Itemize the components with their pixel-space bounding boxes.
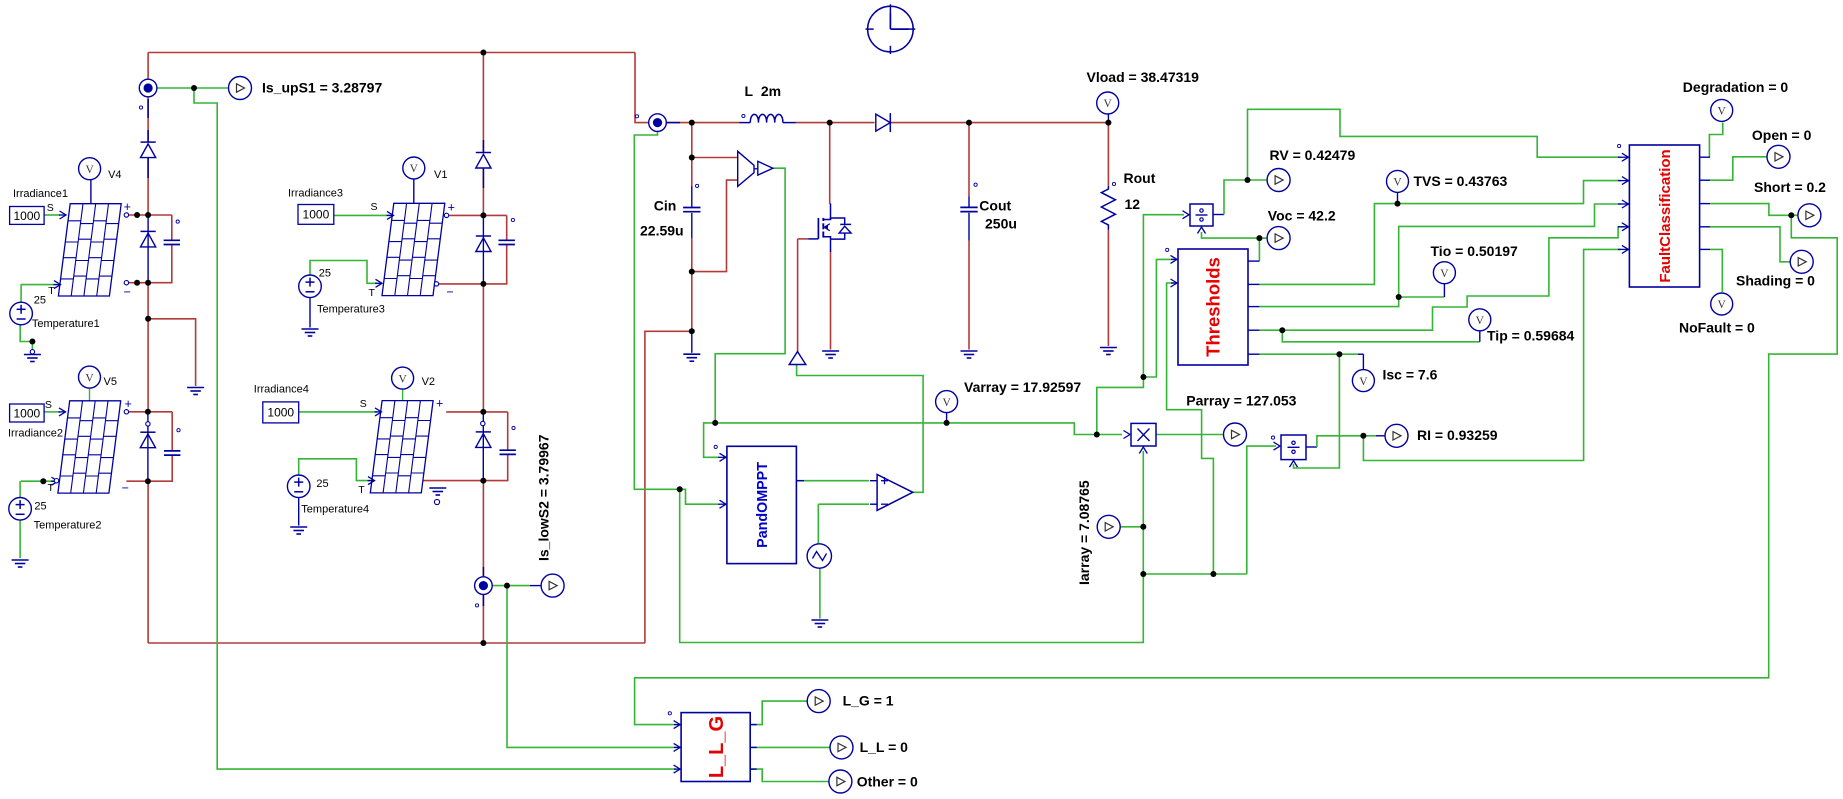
wire carrier source ground stem <box>819 568 821 618</box>
svg-text:S: S <box>360 398 367 410</box>
wire bypass2 cap branch <box>171 412 173 452</box>
svg-text:Tio = 0.50197: Tio = 0.50197 <box>1431 243 1519 259</box>
node multiplier input <box>1094 432 1100 438</box>
node RV junction <box>1245 177 1251 183</box>
svg-text:Is_upS1 = 3.28797: Is_upS1 = 3.28797 <box>262 80 382 96</box>
marker bypass3 <box>511 218 514 221</box>
terminal panel2 T <box>54 479 58 483</box>
constant block Irradiance1 <box>10 207 45 225</box>
svg-text:Rout: Rout <box>1124 170 1156 186</box>
wire string2 to panel4 <box>482 284 484 412</box>
wire Voc line <box>1259 238 1266 261</box>
ground MOSFET source <box>822 351 839 358</box>
svg-text:V: V <box>1476 315 1485 327</box>
wire Thresholds out3 stub <box>1248 306 1259 308</box>
label L_G value <box>843 693 894 709</box>
voltmeter V4 <box>79 158 101 204</box>
marker bypass2 <box>177 429 180 432</box>
input arrow T1 <box>54 281 61 289</box>
ground Temperature4 <box>290 527 307 534</box>
wire voltmeter tap lower <box>692 180 738 272</box>
transistor Q1 (MOSFET with body diode) <box>808 203 851 252</box>
marker input node <box>635 115 638 118</box>
label Other value <box>857 774 918 790</box>
wire V2 stem <box>402 389 404 400</box>
wire Cin return to bottom rail <box>645 331 692 643</box>
wire voltmeter tap upper <box>692 157 738 159</box>
wire Thresholds out5 stub <box>1248 353 1259 355</box>
svg-text:Is_lowS2 = 3.79967: Is_lowS2 = 3.79967 <box>536 434 552 561</box>
wire Tio line <box>1259 204 1621 307</box>
block PandOMPPT (MPPT controller) <box>727 446 797 563</box>
wire RV divider output stub <box>1213 214 1224 216</box>
diode D4 string2 top <box>476 153 491 169</box>
mark minus panel2 <box>122 481 129 495</box>
svg-text:S: S <box>47 202 54 214</box>
voltage source Temperature2 <box>9 498 32 521</box>
multiplier block (Parray = Varray*Iarray) <box>1124 423 1157 453</box>
svg-text:V2: V2 <box>422 376 435 388</box>
mark plus panel3 <box>448 201 455 215</box>
ground Temperature3 <box>302 329 319 336</box>
label Isc value <box>1383 367 1438 383</box>
terminal panel2 plus <box>124 410 128 414</box>
wire Tio probe branch <box>1399 296 1445 298</box>
node Short junction <box>1788 212 1794 218</box>
wire Tio probe stem <box>1443 284 1445 297</box>
label S panel3 <box>371 201 378 213</box>
svg-text:FaultClassification: FaultClassification <box>1657 149 1674 282</box>
label V5 <box>104 376 117 388</box>
diode D5 bypass panel3 <box>476 236 491 252</box>
label 25 Temperature1 <box>34 295 46 307</box>
node Cin sense bottom <box>689 269 695 275</box>
wire string1 bottom drop <box>147 481 149 643</box>
svg-text:S: S <box>371 201 378 213</box>
label Temperature1 <box>32 318 100 330</box>
svg-text:+: + <box>448 201 455 215</box>
probe display Short <box>1798 204 1821 227</box>
PV panel Irradiance1 (V4 string module) <box>58 204 121 296</box>
block Thresholds <box>1178 249 1248 365</box>
wire blue lead probe2 above <box>482 567 484 576</box>
svg-text:V: V <box>398 373 407 385</box>
label T panel2 <box>48 482 55 494</box>
wire Short feedback to L_L_G input1 <box>635 215 1838 724</box>
label Tio value <box>1431 243 1519 259</box>
wire panel1 plus row <box>126 214 171 216</box>
svg-text:Thresholds: Thresholds <box>1203 257 1224 357</box>
constant block Irradiance4 <box>263 402 299 423</box>
block FaultClassification <box>1629 145 1699 287</box>
svg-text:V5: V5 <box>104 376 117 388</box>
wire Tip line <box>1259 227 1624 330</box>
wire Varray to Thresholds input1 <box>1143 259 1174 377</box>
wire RV to FaultClassification input1 <box>1248 109 1622 180</box>
wire Varray stair to RV divider <box>1097 215 1184 435</box>
voltage source Temperature1 <box>10 302 33 325</box>
wire FC out2 to Open <box>1710 157 1767 180</box>
svg-text:Short = 0.2: Short = 0.2 <box>1754 179 1826 195</box>
node string1 mid ground <box>145 316 151 322</box>
current probe Iarray input node <box>649 114 667 132</box>
node TVS junction <box>1395 201 1401 207</box>
svg-text:Irradiance2: Irradiance2 <box>8 428 63 440</box>
label T panel3 <box>369 287 376 299</box>
svg-text:+: + <box>124 200 131 214</box>
label NoFault value <box>1679 320 1755 336</box>
wire FC out4 to Shading <box>1710 227 1790 262</box>
op-amp PWM comparator U1 <box>870 475 913 511</box>
constant block Irradiance2 <box>10 404 45 422</box>
node panel1 minus a <box>134 280 140 286</box>
node Tip tap <box>1279 327 1285 333</box>
label V1 <box>434 169 447 181</box>
svg-text:Temperature2: Temperature2 <box>34 520 102 532</box>
wire Is_upS1 probe tap <box>157 87 229 89</box>
probe display Is_upS1 <box>229 77 252 100</box>
svg-text:25: 25 <box>34 295 46 307</box>
ground carrier source <box>811 620 828 627</box>
label L_L value <box>860 739 909 755</box>
svg-text:22.59u: 22.59u <box>640 223 684 239</box>
wire bypass1 cap bottom <box>126 245 171 283</box>
wire blue lead probe2 below <box>482 595 484 606</box>
svg-text:Temperature3: Temperature3 <box>317 304 385 316</box>
wire Cout top lead <box>968 123 970 197</box>
diode D6 bypass panel4 <box>476 432 491 448</box>
svg-text:Iarray = 7.08765: Iarray = 7.08765 <box>1076 480 1092 585</box>
wire Cin top lead <box>691 123 693 186</box>
input arrow S3 <box>387 211 394 219</box>
svg-text:S: S <box>45 399 52 411</box>
clock block <box>866 4 916 54</box>
node panel1 plus b <box>145 212 151 218</box>
label Temperature3 <box>317 304 385 316</box>
label Vload value <box>1087 69 1200 85</box>
wire probe to Cin top junction <box>667 122 692 124</box>
label 25 Temperature3 <box>319 268 331 280</box>
wire PandOMPPT input2 jog <box>680 489 718 504</box>
marker FaultClassification <box>1618 144 1621 147</box>
svg-text:1000: 1000 <box>303 208 330 222</box>
wire Temperature1 stem top <box>20 285 22 303</box>
wire blue lead D1 below <box>147 158 149 178</box>
label Irradiance4 <box>254 384 309 396</box>
wire Vload junction to Rout <box>1107 123 1109 186</box>
svg-text:V: V <box>942 397 951 409</box>
svg-text:T: T <box>48 482 55 494</box>
label Irradiance2 <box>8 428 63 440</box>
probe display RV <box>1267 169 1291 192</box>
node panel2 plus <box>145 409 151 415</box>
capacitor Cout <box>960 207 977 211</box>
wire Rout to ground <box>1107 230 1109 346</box>
voltage source Temperature4 <box>287 475 310 498</box>
constant block Irradiance3 <box>298 205 334 225</box>
wire string1 probe to diode D1 <box>147 97 149 142</box>
svg-text:T: T <box>369 287 376 299</box>
wire blue lead D4 above <box>482 140 484 153</box>
wire Iarray branch row <box>1143 573 1247 575</box>
svg-text:1000: 1000 <box>13 209 40 223</box>
node Thresholds in2 stair <box>1210 571 1216 577</box>
PV panel Irradiance2 (V5 string module) <box>58 401 121 493</box>
svg-text:V: V <box>1104 98 1113 110</box>
wire string1 top drop <box>147 53 149 80</box>
wire Iarray stair to Thresholds input2 <box>1167 283 1214 574</box>
wire Cout cap lead bottom <box>968 213 970 241</box>
probe display Iarray <box>1097 515 1120 538</box>
marker Cout <box>974 183 977 186</box>
wire RI to FaultClassification input5 <box>1363 249 1621 460</box>
svg-text:25: 25 <box>34 501 46 513</box>
label Rout <box>1124 170 1156 186</box>
marker inductor <box>742 114 745 117</box>
svg-text:Irradiance4: Irradiance4 <box>254 384 309 396</box>
wire Voc to divider bottom <box>1202 232 1260 238</box>
wire bypass4 cap bottom <box>423 455 507 481</box>
current probe Is_upS1 <box>139 79 157 97</box>
wire PandOMPPT output to comparator <box>796 480 869 482</box>
svg-text:V: V <box>1718 299 1727 311</box>
input arrows Thresholds <box>1171 255 1179 287</box>
ground terminal circle panel4 <box>434 499 439 504</box>
node Iarray probe tap <box>1140 524 1146 530</box>
node string2 top tap <box>480 50 486 56</box>
wire L_L_G out2 to L_L <box>750 746 830 748</box>
wire TVS line <box>1259 181 1621 285</box>
svg-text:V: V <box>85 372 94 384</box>
input arrow T2 <box>51 477 58 485</box>
svg-text:V: V <box>85 164 94 176</box>
svg-text:Vload = 38.47319: Vload = 38.47319 <box>1087 69 1200 85</box>
label Cout value <box>985 216 1017 232</box>
ground panel4 negative <box>429 488 446 495</box>
node Varray probe tap <box>944 420 950 426</box>
wire gate drive <box>798 238 809 240</box>
svg-text:−: − <box>446 285 453 299</box>
label V4 <box>108 169 121 181</box>
wire TVS probe stem <box>1397 193 1399 204</box>
label Rout value <box>1125 196 1141 212</box>
wire string1 D1 to node P1+ <box>147 158 149 215</box>
node Cin top <box>689 120 695 126</box>
node panel2 minus <box>145 478 151 484</box>
diode D2 bypass panel1 <box>141 231 156 247</box>
svg-text:Varray = 17.92597: Varray = 17.92597 <box>964 379 1081 395</box>
wire Vload probe stem <box>1107 114 1109 123</box>
wire Temperature3 T wire <box>310 261 378 284</box>
input arrows PandOMPPT <box>718 453 804 508</box>
svg-text:Shading = 0: Shading = 0 <box>1736 273 1815 289</box>
mark plus panel1 <box>124 200 131 214</box>
svg-text:L 2m: L 2m <box>745 83 782 99</box>
node Cout rail <box>966 120 972 126</box>
wire panel4 plus row <box>446 411 508 413</box>
node Cin sense top <box>689 155 695 161</box>
label Cout <box>979 198 1011 214</box>
terminal panel1 minus <box>124 281 128 285</box>
label Short value <box>1754 179 1826 195</box>
wire MOSFET junction to diode D5 <box>830 122 875 124</box>
mark plus panel4 <box>436 397 443 411</box>
wire bypass3 cap bottom <box>436 245 507 284</box>
wire Temperature2 stem top <box>19 481 21 497</box>
label Tip value <box>1487 328 1575 344</box>
probe display Open <box>1767 145 1790 168</box>
capacitor bypass panel2 <box>164 451 180 455</box>
marker bypass1 <box>176 220 179 223</box>
wire Cin bottom lead <box>691 238 693 331</box>
wire Iarray long run <box>680 451 1144 643</box>
svg-text:Temperature4: Temperature4 <box>301 504 369 516</box>
label Is_lowS2 value (rotated) <box>536 434 552 561</box>
wire Irradiance4 S input <box>299 411 377 413</box>
svg-text:+: + <box>436 397 443 411</box>
node panel4 plus <box>480 409 486 415</box>
svg-text:V: V <box>1359 376 1368 388</box>
marker Is_upS1 <box>139 106 142 109</box>
probe display RI <box>1376 424 1408 447</box>
wire Is_lowS2 to L_L_G input2 <box>507 586 676 748</box>
node RV riser <box>1140 374 1146 380</box>
PV panel Irradiance3 (V1 string module) <box>382 203 445 295</box>
wire string2 D3 to panel3 plus <box>482 169 484 216</box>
wire Varray buffer output <box>715 168 785 423</box>
ground mid-string <box>187 388 204 395</box>
ground Cin <box>683 354 700 361</box>
label TVS value <box>1414 173 1508 189</box>
resistor Rout <box>1101 186 1115 230</box>
node Tio junction <box>1396 294 1402 300</box>
wire Cin top junction to inductor <box>692 122 739 124</box>
diode D3 bypass panel2 <box>140 432 155 448</box>
wire Isc probe stem <box>1362 354 1364 369</box>
mark minus panel1 <box>124 285 131 299</box>
svg-text:L_G = 1: L_G = 1 <box>843 693 894 709</box>
probe display Parray <box>1223 423 1247 446</box>
voltmeter block (Varray sense) <box>738 151 773 186</box>
wire RI divider output stub <box>1306 446 1317 448</box>
wire Iarray probe drop <box>634 132 679 490</box>
wire bypass4 cap branch <box>507 412 509 451</box>
marker Rout <box>1112 182 1115 185</box>
svg-text:25: 25 <box>316 478 328 490</box>
node Temperature1 ground <box>29 339 35 345</box>
node Is_upS1 tap <box>191 85 197 91</box>
inductor L <box>739 114 796 122</box>
svg-text:RI = 0.93259: RI = 0.93259 <box>1417 427 1498 443</box>
svg-text:1000: 1000 <box>267 406 294 420</box>
wire Cin ground stem <box>691 331 693 353</box>
terminal panel3 minus <box>434 282 438 286</box>
wire Isc stub end <box>1358 353 1363 355</box>
marker divider2 <box>1271 436 1274 439</box>
svg-text:NoFault = 0: NoFault = 0 <box>1679 320 1755 336</box>
wire bypass2 diode leads <box>147 412 149 481</box>
node Isc tap <box>1336 351 1342 357</box>
label S panel1 <box>47 202 54 214</box>
label Temperature4 <box>301 504 369 516</box>
svg-text:Isc = 7.6: Isc = 7.6 <box>1383 367 1438 383</box>
wire gate drive vertical <box>797 239 799 352</box>
marker PandOMPPT <box>714 445 717 448</box>
wire Is_lowS2 probe to bottom rail <box>482 595 484 644</box>
wire bypass3 cap branch <box>506 215 508 240</box>
wire string1 minus to mid junction <box>147 283 149 319</box>
svg-text:250u: 250u <box>985 216 1017 232</box>
probe display L_L <box>830 736 853 759</box>
wire Varray to PandOMPPT input1 <box>704 423 718 457</box>
input arrow T3 <box>375 279 382 287</box>
wire Temperature2 T input <box>21 480 54 482</box>
wire Cin cap blue lead top <box>691 186 693 208</box>
wire Irradiance1 S input <box>44 214 60 216</box>
wire diode D5 to Cout junction <box>891 122 969 124</box>
svg-text:T: T <box>48 285 55 297</box>
wire carrier to comparator minus <box>818 503 869 505</box>
wire string2 to Is_lowS2 probe <box>482 481 484 577</box>
wire bypass2 cap bottom <box>126 455 172 481</box>
wire string1 down to panel2 <box>147 319 149 412</box>
wire Tip probe stem <box>1479 331 1481 342</box>
label T panel4 <box>358 484 365 496</box>
wire multiplier output to Parray probe <box>1156 434 1223 436</box>
ground Rout <box>1100 348 1117 355</box>
wire Cout cap leads <box>968 197 970 208</box>
wire Varray bus <box>715 423 1122 435</box>
label Shading value <box>1736 273 1815 289</box>
capacitor bypass panel4 <box>500 450 516 454</box>
wire L_L_G out3 to Other <box>750 769 829 781</box>
label Is_upS1 value <box>262 80 382 96</box>
svg-text:25: 25 <box>319 268 331 280</box>
wire FC out5 to NoFault <box>1710 249 1722 292</box>
input arrow S4 <box>375 408 382 416</box>
node MOSFET drain rail <box>827 120 833 126</box>
svg-text:V1: V1 <box>434 169 447 181</box>
input arrow S1 <box>59 211 66 219</box>
wire bypass1 diode leads <box>147 215 149 283</box>
wire Thresholds out2 stub <box>1248 283 1259 285</box>
node panel1 minus b <box>145 280 151 286</box>
ground terminal circle Temperature1 <box>30 350 34 354</box>
voltmeter probe TVS <box>1387 170 1409 192</box>
wire Isc to RI divider bottom <box>1294 354 1340 468</box>
label 25 Temperature4 <box>316 478 328 490</box>
voltmeter probe Vload <box>1097 92 1119 114</box>
input/output port arrows L_L_G <box>674 721 757 774</box>
wire blue lead probe3 right <box>667 122 681 124</box>
svg-text:TVS = 0.43763: TVS = 0.43763 <box>1414 173 1508 189</box>
wire PWM output to gate <box>797 365 924 493</box>
node Is_lowS2 tap <box>504 583 510 589</box>
wire mid-string ground tap <box>148 319 196 386</box>
svg-text:L_L = 0: L_L = 0 <box>860 739 909 755</box>
svg-text:Cin: Cin <box>654 198 677 214</box>
wire Is_upS1 to L_L_G input3 <box>194 88 676 769</box>
label Cin <box>654 198 677 214</box>
label Varray value <box>964 379 1081 395</box>
node Vload rail <box>1105 120 1111 126</box>
node panel1 plus a <box>134 212 140 218</box>
probe display Is_lowS2 <box>530 574 564 597</box>
marker Is_lowS2 <box>475 604 478 607</box>
voltmeter probe NoFault <box>1711 293 1733 315</box>
wire inductor to MOSFET junction <box>796 122 830 124</box>
svg-text:Voc = 42.2: Voc = 42.2 <box>1268 208 1336 224</box>
